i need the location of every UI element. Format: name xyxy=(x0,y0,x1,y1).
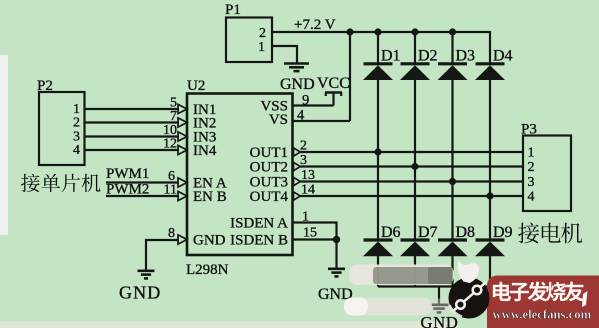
power VCC symbol xyxy=(325,93,342,106)
net label PWM1 xyxy=(106,166,149,182)
svg-text:GND: GND xyxy=(119,283,161,303)
wire +7.2V rail xyxy=(350,31,490,33)
svg-text:2: 2 xyxy=(528,160,535,175)
wire D1 anode to OUT1 node to D6 cathode xyxy=(377,80,379,241)
net label GND (bus) xyxy=(421,313,459,328)
svg-text:IN4: IN4 xyxy=(193,143,217,159)
svg-text:2: 2 xyxy=(259,26,266,41)
svg-text:L298N: L298N xyxy=(186,262,229,278)
pin number 4 xyxy=(297,108,305,124)
pin number 9 xyxy=(302,93,309,109)
diode D3 xyxy=(438,48,476,81)
svg-text:D6: D6 xyxy=(381,224,401,241)
junction OUT3/D3 xyxy=(449,178,456,185)
background scan artifacts xyxy=(0,55,458,328)
svg-text:EN B: EN B xyxy=(193,189,227,205)
svg-text:+7.2 V: +7.2 V xyxy=(294,17,336,33)
net label GND (P1) xyxy=(280,76,315,93)
ground (ISDEN) xyxy=(328,269,345,277)
svg-text:D7: D7 xyxy=(418,224,438,241)
wire +7.2V rail to D1 cathode xyxy=(377,32,379,64)
wire P2 pin1 to U2 IN1 xyxy=(85,108,180,110)
wire U2 VSS pin9 to VCC xyxy=(293,104,334,106)
corner rail/D4 xyxy=(0,0,1,1)
net label VCC xyxy=(317,75,350,92)
svg-text:D2: D2 xyxy=(418,48,438,65)
wire PWM1 to U2 EN A xyxy=(106,181,179,183)
ground (P1) xyxy=(284,64,309,72)
junction rail/D1 xyxy=(374,28,381,35)
wire U2 GND pin8 to ground xyxy=(146,240,179,270)
wire U2 ISDEN B pin15 xyxy=(293,238,337,240)
pin number 10 xyxy=(163,123,177,138)
connector P3 xyxy=(521,122,571,212)
pin number 6 xyxy=(168,169,175,184)
svg-text:www.elecfans.com: www.elecfans.com xyxy=(493,308,592,322)
wire ground bus xyxy=(378,285,490,287)
svg-text:D3: D3 xyxy=(456,48,476,65)
label 接电机 (connect to motor) xyxy=(518,223,582,244)
svg-text:1: 1 xyxy=(528,146,535,161)
svg-text:3: 3 xyxy=(528,175,535,190)
wire U2 OUT4 to P3 pin4 xyxy=(300,195,523,197)
wire bus to ground symbol xyxy=(438,287,440,305)
svg-text:1: 1 xyxy=(258,40,265,55)
svg-text:OUT2: OUT2 xyxy=(250,160,288,176)
wire +7.2V rail to D3 cathode xyxy=(451,32,453,64)
junction VS/+7.2V xyxy=(346,28,353,35)
wire U2 OUT3 to P3 pin3 xyxy=(300,180,523,182)
junction OUT2/D2 xyxy=(411,163,418,170)
wire D6 anode to ground bus xyxy=(377,256,379,287)
svg-text:PWM1: PWM1 xyxy=(106,166,149,182)
pin number 8 xyxy=(168,226,175,241)
svg-text:GND: GND xyxy=(421,313,459,328)
svg-text:OUT4: OUT4 xyxy=(250,189,289,205)
wire +7.2V rail to D2 cathode xyxy=(414,32,416,64)
svg-text:VS: VS xyxy=(269,112,288,128)
wire PWM2 to U2 EN B xyxy=(106,195,179,197)
wire +7.2V rail corner to D4 cathode xyxy=(489,31,491,64)
wire P2 pin2 to U2 IN2 xyxy=(85,121,180,123)
junction ISDEN A/B xyxy=(333,236,340,243)
wire D7 anode to ground bus xyxy=(414,256,416,287)
svg-text:D1: D1 xyxy=(381,48,401,65)
watermark elecfans.com xyxy=(449,261,599,328)
net label GND (pin 8) xyxy=(119,283,161,303)
net label PWM2 xyxy=(106,181,149,197)
svg-text:8: 8 xyxy=(168,226,175,241)
wire D3 anode to OUT3 node to D8 cathode xyxy=(451,80,453,241)
diode D6 xyxy=(363,224,401,256)
svg-text:U2: U2 xyxy=(187,78,205,94)
ground (bus) xyxy=(430,305,449,313)
svg-text:9: 9 xyxy=(302,93,309,109)
pin number 13 xyxy=(301,168,315,183)
diode D8 xyxy=(438,224,476,256)
wire P1 pin2 to +7.2V rail xyxy=(272,31,350,33)
pin number 1 xyxy=(302,210,309,225)
wire D8 anode to ground bus xyxy=(451,256,453,287)
svg-text:P1: P1 xyxy=(225,2,241,18)
pin number 11 xyxy=(164,182,177,197)
svg-text:4: 4 xyxy=(297,108,305,124)
connector P2 xyxy=(37,78,85,165)
pin number 12 xyxy=(163,136,177,151)
svg-text:4: 4 xyxy=(528,190,535,205)
pin number 15 xyxy=(303,226,317,241)
net label +7.2 V xyxy=(294,17,336,33)
wire U2 ISDEN A pin1 xyxy=(293,223,337,240)
diode D9 xyxy=(475,224,513,256)
connector P1 xyxy=(225,2,272,62)
svg-text:ISDEN B: ISDEN B xyxy=(230,233,288,249)
net label GND (ISDEN) xyxy=(318,286,353,303)
diode D2 xyxy=(400,48,438,81)
pin number 2 xyxy=(300,138,307,153)
svg-text:4: 4 xyxy=(73,143,80,158)
pin number 5 xyxy=(170,95,177,110)
svg-text:GND: GND xyxy=(280,76,315,93)
label 接单片机 (connect to MCU) xyxy=(21,174,101,192)
wire P2 pin4 to U2 IN4 xyxy=(85,149,180,151)
wire D4 anode to OUT4 node to D9 cathode xyxy=(489,80,491,241)
wire D2 anode to OUT2 node to D7 cathode xyxy=(414,80,416,241)
pin number 14 xyxy=(301,183,315,198)
junction OUT1/D1 xyxy=(374,148,381,155)
svg-text:2: 2 xyxy=(73,116,80,131)
junction rail/D2 xyxy=(411,28,418,35)
pin number 3 xyxy=(300,153,307,168)
junction OUT4/D4 xyxy=(486,192,493,199)
diode D4 xyxy=(475,48,513,81)
svg-text:GND: GND xyxy=(193,233,226,249)
IC U2 L298N xyxy=(178,78,300,278)
wire ISDEN junction to ground xyxy=(335,240,337,269)
svg-text:ISDEN A: ISDEN A xyxy=(230,216,288,232)
wire U2 OUT2 to P3 pin2 xyxy=(300,165,523,167)
wire U2 VS pin4 to +7.2V rail xyxy=(293,31,351,121)
svg-text:VCC: VCC xyxy=(317,75,350,92)
svg-text:D4: D4 xyxy=(493,48,513,65)
svg-text:D8: D8 xyxy=(456,224,476,241)
pin number 7 xyxy=(170,109,177,124)
wire D9 anode to ground bus xyxy=(489,256,491,287)
wire U2 OUT1 to P3 pin1 xyxy=(300,151,523,153)
ground (pin 8) xyxy=(138,271,155,279)
wire P2 pin3 to U2 IN3 xyxy=(85,135,180,137)
wire P1 pin1 to ground xyxy=(272,46,297,63)
diode D7 xyxy=(400,224,438,256)
diode D1 xyxy=(363,48,401,81)
svg-text:D9: D9 xyxy=(493,224,513,241)
smudge patches xyxy=(344,265,454,316)
junction rail/D3 xyxy=(449,28,456,35)
